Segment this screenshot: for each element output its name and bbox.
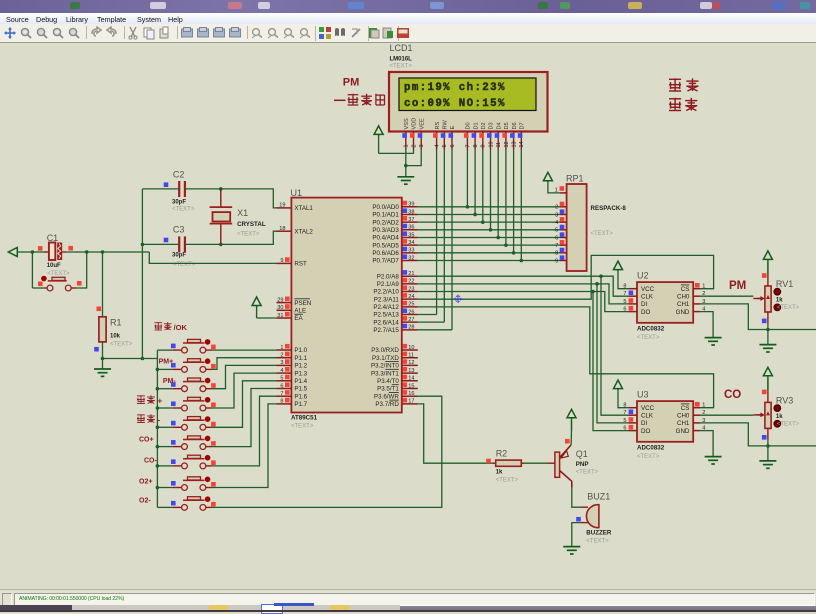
svg-text:-: -	[158, 416, 161, 425]
svg-text:P1.3: P1.3	[294, 370, 307, 377]
svg-text:CH1: CH1	[677, 301, 690, 308]
svg-text:X1: X1	[237, 208, 248, 218]
junction D2/P0.2	[481, 220, 485, 224]
svg-text:3: 3	[280, 360, 283, 366]
svg-text:6: 6	[280, 383, 283, 389]
power arrow for Q1 collector	[567, 409, 576, 445]
svg-text:Q1: Q1	[576, 449, 588, 459]
crystal X1 labels CRYSTAL	[237, 208, 266, 238]
svg-text:LCD1: LCD1	[390, 43, 413, 53]
svg-text:P3.6/WR: P3.6/WR	[374, 393, 399, 400]
RV3 labels 1k	[776, 395, 800, 427]
ground for LCD VSS	[397, 176, 414, 178]
svg-text:2: 2	[411, 144, 417, 147]
wire LCD D4 to P0.4 bus	[497, 150, 499, 238]
wire U2 GND to ground	[700, 312, 713, 338]
svg-text:RESPACK-8: RESPACK-8	[591, 205, 627, 212]
svg-text:<TEXT>: <TEXT>	[110, 342, 133, 348]
svg-text:37: 37	[408, 217, 414, 223]
wiper wire into RV1	[753, 296, 765, 301]
capacitor C2 plates	[179, 181, 185, 197]
wire P2.1 branch to U3 DI	[597, 284, 628, 423]
ground for RV1	[759, 344, 776, 346]
wire button6 to P1.5	[212, 389, 277, 447]
svg-text:RV3: RV3	[776, 395, 793, 405]
svg-text:/OK: /OK	[174, 323, 188, 332]
svg-text:P3.1/TXD: P3.1/TXD	[372, 355, 399, 362]
svg-text:P3.4/T0: P3.4/T0	[377, 378, 399, 385]
svg-text:U2: U2	[637, 271, 649, 281]
svg-text:9: 9	[481, 144, 487, 147]
svg-text:+: +	[158, 397, 163, 406]
wire LCD D7 to P0.7 bus	[520, 150, 522, 261]
wire xtal ground rail down	[141, 189, 143, 359]
wire P2.1 to U2 DI	[418, 284, 629, 304]
red label 碳氢-	[137, 414, 155, 422]
svg-text:13: 13	[512, 141, 518, 147]
svg-text:CO-: CO-	[144, 458, 158, 465]
crystal X1 symbol	[210, 189, 233, 245]
svg-text:R1: R1	[110, 318, 122, 328]
svg-text:U1: U1	[291, 188, 303, 198]
junction D1/P0.1	[473, 213, 477, 217]
svg-text:O2+: O2+	[139, 479, 152, 486]
wire C1 right to RST net	[66, 251, 149, 253]
svg-text:10uF: 10uF	[47, 263, 61, 269]
potentiometer RV3 1k	[765, 391, 771, 440]
ADC U3 ADC0832 body	[637, 401, 693, 442]
op-amp U1 labels AT89C51	[291, 188, 318, 430]
potentiometer RV1 1k	[765, 275, 771, 324]
push button CO+	[157, 436, 212, 450]
LCD display LCD1 labels	[390, 43, 413, 70]
svg-text:33: 33	[408, 248, 414, 254]
LCD pin stubs 1-14	[406, 132, 522, 150]
capacitor C2 labels 30pF	[172, 170, 195, 213]
svg-text:D2: D2	[481, 122, 487, 129]
svg-text:<TEXT>: <TEXT>	[591, 231, 614, 237]
svg-text:D5: D5	[504, 122, 510, 129]
state square BUZ1	[576, 517, 581, 522]
svg-text:P0.5/AD5: P0.5/AD5	[372, 242, 399, 249]
RV1 labels 1k	[776, 279, 800, 311]
svg-text:15: 15	[408, 383, 414, 389]
svg-text:CS: CS	[681, 286, 690, 293]
svg-text:<TEXT>: <TEXT>	[637, 335, 660, 341]
wire LCD RW to P2.6	[443, 150, 445, 323]
svg-text:RW: RW	[443, 120, 449, 130]
svg-text:CS: CS	[681, 405, 690, 412]
svg-text:P2.6/A14: P2.6/A14	[373, 319, 399, 326]
junction P2.0 branch	[599, 274, 603, 278]
svg-text:<TEXT>: <TEXT>	[237, 232, 260, 238]
origin marker	[454, 295, 462, 303]
U2 right pins CS CH0 CH1 GND	[676, 283, 706, 316]
RV3 adjust buttons	[774, 405, 781, 427]
state squares RV3	[762, 390, 767, 440]
svg-text:C3: C3	[173, 225, 185, 235]
junction VSS/VEE	[404, 164, 408, 168]
svg-text:<TEXT>: <TEXT>	[496, 478, 519, 484]
push button 设置/OK	[157, 339, 212, 353]
resistor R2 1k	[493, 460, 524, 466]
junction reset button right	[85, 250, 89, 254]
svg-text:3: 3	[555, 212, 558, 218]
ground under R1	[94, 359, 111, 377]
wire EA to power	[257, 317, 277, 319]
wire U3 CH1 to RV3 bottom rail	[700, 423, 816, 446]
junction D0/P0.0	[466, 205, 470, 209]
state squares button PM+	[171, 363, 216, 369]
state square C2 left	[164, 182, 169, 187]
U2 left pins VCC CLK DI DO	[623, 284, 654, 316]
wire R1 bottom to button rail	[103, 358, 158, 360]
state squares button O2-	[171, 501, 216, 507]
wire button4 to P1.3	[212, 373, 277, 408]
power arrow for EA	[252, 297, 261, 318]
svg-text:PM-: PM-	[163, 378, 177, 385]
red label 氧气	[669, 98, 697, 111]
svg-text:6: 6	[623, 307, 626, 313]
wire LCD VDD pin2 to power arrow	[379, 150, 414, 154]
state squares button O2+	[171, 481, 216, 487]
junction RV3 bottom	[766, 444, 770, 448]
svg-text:P2.3/A11: P2.3/A11	[374, 296, 400, 303]
svg-text:R2: R2	[496, 449, 508, 459]
svg-text:P1.6: P1.6	[294, 393, 307, 400]
svg-text:8: 8	[555, 251, 558, 257]
svg-text:11: 11	[408, 353, 414, 359]
svg-text:1: 1	[702, 403, 705, 409]
junction R1 bottom	[101, 357, 105, 361]
svg-text:30pF: 30pF	[172, 200, 186, 206]
resistor R2 labels 1k	[496, 449, 519, 484]
svg-text:<TEXT>: <TEXT>	[47, 271, 70, 277]
svg-text:C2: C2	[173, 170, 185, 180]
wire P2.5 to LCD RS	[418, 314, 437, 316]
svg-text:30pF: 30pF	[172, 253, 186, 259]
svg-text:21: 21	[408, 271, 414, 277]
svg-text:26: 26	[408, 309, 414, 315]
U1 right pin stubs, numbers and squares	[402, 201, 418, 405]
svg-text:P2.0/A8: P2.0/A8	[377, 273, 400, 280]
svg-text:P0.3/AD3: P0.3/AD3	[372, 227, 399, 234]
svg-text:8: 8	[473, 144, 479, 147]
state squares button 碳氢-	[171, 421, 216, 427]
wire P2.2 branch to U3 DO	[593, 292, 628, 431]
svg-text:24: 24	[408, 294, 414, 300]
svg-text:5: 5	[623, 299, 626, 305]
wire P2.3 to U2 CS over the top	[418, 255, 714, 299]
red label 一氧化碳	[334, 99, 346, 101]
svg-text:P1.1: P1.1	[294, 355, 307, 362]
svg-text:<TEXT>: <TEXT>	[637, 454, 660, 460]
svg-text:RP1: RP1	[566, 174, 584, 184]
svg-text:CH0: CH0	[677, 412, 690, 419]
wire reset button right up	[71, 252, 87, 288]
svg-text:6: 6	[623, 426, 626, 432]
state square R1 bottom	[94, 347, 99, 352]
svg-text:ALE: ALE	[294, 308, 306, 315]
svg-text:CO: CO	[724, 389, 741, 401]
svg-text:XTAL1: XTAL1	[294, 205, 313, 212]
svg-text:XTAL2: XTAL2	[294, 228, 313, 235]
junction C2/X1	[219, 187, 223, 191]
svg-text:VSS: VSS	[404, 118, 410, 129]
svg-text:VDD: VDD	[412, 118, 418, 130]
svg-text:P1.5: P1.5	[294, 386, 307, 393]
state square C1 left	[38, 246, 43, 251]
svg-text:<TEXT>: <TEXT>	[576, 470, 599, 476]
U1 right pin labels	[371, 204, 399, 408]
push button O2-	[157, 496, 212, 510]
svg-text:P2.2/A10: P2.2/A10	[373, 289, 399, 296]
capacitor C1 10uF	[44, 243, 66, 261]
junction D7/P0.7	[520, 259, 524, 263]
svg-text:DO: DO	[641, 428, 650, 435]
state squares button 设置/OK	[171, 344, 216, 350]
ADC U2 ADC0832 body	[637, 282, 693, 323]
svg-text:10k: 10k	[110, 334, 121, 340]
state square C1 right	[68, 246, 73, 251]
svg-text:P2.7/A15: P2.7/A15	[373, 327, 399, 334]
state squares button CO-	[171, 459, 216, 465]
wire RST into U1	[149, 252, 276, 263]
capacitor C1 labels 10uF	[47, 233, 70, 277]
svg-text:6: 6	[555, 235, 558, 241]
svg-text:32: 32	[408, 255, 414, 261]
svg-text:VCC: VCC	[641, 405, 655, 412]
RV1 adjust buttons	[774, 288, 781, 310]
push button 碳氢+	[157, 397, 212, 411]
svg-text:P1.2: P1.2	[294, 363, 307, 370]
svg-text:<TEXT>: <TEXT>	[172, 207, 195, 213]
svg-text:P3.2/INT0: P3.2/INT0	[371, 363, 399, 370]
wire LCD RS to P2.5	[436, 150, 438, 315]
svg-text:4: 4	[435, 144, 441, 147]
svg-text:<TEXT>: <TEXT>	[586, 539, 609, 545]
svg-text:AT89C51: AT89C51	[291, 415, 318, 422]
svg-text:ADC0832: ADC0832	[637, 326, 665, 333]
junction C3 gnd rail	[141, 243, 145, 247]
wire P2.7 to LCD E	[418, 329, 452, 331]
svg-text:CH1: CH1	[677, 420, 690, 427]
svg-text:1: 1	[555, 187, 558, 193]
svg-text:P1.0: P1.0	[294, 347, 307, 354]
junction P2.2 branch	[591, 290, 595, 294]
svg-text:25: 25	[408, 302, 414, 308]
junction gnd rail / button rail	[141, 357, 145, 361]
svg-text:10: 10	[488, 141, 494, 147]
wire U3 GND to ground	[700, 431, 713, 457]
svg-text:1: 1	[404, 144, 410, 147]
push button O2+	[157, 477, 212, 491]
wiper wire into RV3	[753, 413, 765, 418]
junction D3/P0.3	[489, 228, 493, 232]
svg-text:38: 38	[408, 209, 414, 215]
junction D4/P0.4	[496, 236, 500, 240]
svg-text:16: 16	[408, 391, 414, 397]
wire C3 right to XTAL2	[185, 231, 277, 244]
svg-text:E: E	[450, 126, 456, 130]
svg-text:<TEXT>: <TEXT>	[291, 424, 314, 430]
svg-text:PM+: PM+	[159, 359, 174, 366]
svg-text:8: 8	[280, 399, 283, 405]
svg-text:31: 31	[277, 313, 283, 319]
svg-text:P3.5/T1: P3.5/T1	[377, 386, 399, 393]
svg-text:PNP: PNP	[576, 461, 589, 468]
svg-text:CO+: CO+	[139, 437, 154, 444]
wire LCD VEE pin3 to VSS	[406, 150, 421, 166]
svg-text:P0.1/AD1: P0.1/AD1	[372, 212, 399, 219]
svg-text:DO: DO	[641, 309, 650, 316]
svg-text:10: 10	[408, 345, 414, 351]
wire LCD D1 to P0.1 bus	[474, 150, 476, 215]
buzzer BUZ1 labels BUZZER	[586, 492, 612, 545]
RP1 pins 2-9 stubs numbers squares	[555, 202, 567, 265]
svg-text:5: 5	[623, 418, 626, 424]
wire power arrow to C1	[17, 251, 44, 253]
wire button3 to P1.2	[212, 365, 277, 388]
svg-text:12: 12	[408, 360, 414, 366]
svg-text:2: 2	[280, 353, 283, 359]
svg-text:CH0: CH0	[677, 293, 690, 300]
svg-text:P3.0/RXD: P3.0/RXD	[371, 347, 399, 354]
wire C2 right to XTAL1	[185, 189, 277, 208]
svg-text:7: 7	[280, 391, 283, 397]
wire button2 to P1.1	[212, 358, 277, 370]
svg-text:7: 7	[623, 291, 626, 297]
U3 labels ADC0832	[637, 390, 665, 461]
capacitor C3 labels 30pF	[172, 225, 196, 269]
svg-text:D7: D7	[520, 122, 526, 129]
svg-text:7: 7	[465, 144, 471, 147]
svg-text:28: 28	[408, 325, 414, 331]
svg-text:5: 5	[442, 144, 448, 147]
svg-text:23: 23	[408, 286, 414, 292]
resistor pack RP1 RESPACK-8 body	[567, 184, 587, 271]
svg-text:11: 11	[496, 142, 502, 148]
U1 left pin labels	[294, 205, 313, 408]
state square C3 left	[164, 238, 169, 243]
red label 碳氢+	[137, 395, 155, 403]
svg-text:P0.6/AD6: P0.6/AD6	[372, 250, 399, 257]
svg-text:P0.0/AD0: P0.0/AD0	[372, 204, 399, 211]
wire RV3 bottom to ground	[767, 440, 769, 461]
U3 right pins CS CH0 CH1 GND	[676, 402, 706, 435]
LCD pin state squares	[402, 133, 522, 138]
wire P3.6 to button O2-	[212, 396, 442, 507]
svg-text:P0.2/AD2: P0.2/AD2	[372, 219, 399, 226]
resistor R1 10k	[99, 252, 106, 359]
svg-text:14: 14	[519, 141, 525, 147]
state squares button CO+	[171, 440, 216, 446]
wire button8 to P1.7	[212, 404, 277, 488]
junction R1 top	[101, 250, 105, 254]
power arrow for RV3	[763, 367, 772, 391]
wire U2 CH0 to RV1 wiper	[700, 295, 753, 297]
wire reset button left drop	[31, 252, 33, 288]
wire C2 left to gnd rail	[142, 188, 179, 190]
svg-text:CRYSTAL: CRYSTAL	[237, 221, 266, 228]
svg-text:1k: 1k	[776, 297, 783, 303]
wire button5 to P1.4	[212, 381, 277, 428]
svg-text:17: 17	[408, 399, 414, 405]
red label 设置/OK	[155, 322, 172, 330]
state squares reset button	[38, 281, 82, 286]
buzzer BUZ1	[581, 505, 599, 528]
svg-text:CLK: CLK	[641, 412, 654, 419]
wire LCD D2 to P0.2 bus	[482, 150, 484, 223]
svg-text:12: 12	[504, 141, 510, 147]
wire U2 CH1 to RV1 bottom rail	[700, 304, 816, 330]
svg-text:<TEXT>: <TEXT>	[390, 64, 413, 70]
wire P3.7 to R2	[418, 404, 493, 463]
svg-text:5: 5	[555, 228, 558, 234]
wire C3 left	[142, 243, 179, 245]
svg-text:RV1: RV1	[776, 279, 793, 289]
svg-text:P1.4: P1.4	[294, 378, 307, 385]
state squares button 碳氢+	[171, 402, 216, 408]
svg-text:<TEXT>: <TEXT>	[777, 305, 800, 311]
svg-text:D1: D1	[473, 122, 479, 129]
svg-text:18: 18	[279, 226, 285, 232]
wire LCD E to P2.7	[451, 150, 453, 330]
state square Q1 collector	[565, 439, 570, 444]
svg-text:CLK: CLK	[641, 293, 654, 300]
ground for U3	[705, 456, 722, 458]
svg-text:PM: PM	[343, 77, 360, 89]
svg-text:14: 14	[408, 376, 414, 382]
state squares button PM-	[171, 382, 216, 388]
svg-text:35: 35	[408, 232, 414, 238]
svg-text:P0.4/AD4: P0.4/AD4	[372, 235, 399, 242]
svg-text:pm:19% ch:23%: pm:19% ch:23%	[404, 82, 506, 94]
svg-text:4: 4	[280, 368, 283, 374]
wire LCD D0 to P0.0 bus	[466, 150, 468, 207]
svg-text:36: 36	[408, 225, 414, 231]
svg-text:PSEN: PSEN	[294, 300, 311, 307]
svg-text:VEE: VEE	[419, 118, 425, 129]
LCD pin name labels VSS VDD VEE RS RW E D0-D7	[404, 118, 526, 130]
junction RV1 bottom	[766, 328, 770, 332]
power arrow for U2 VCC	[614, 261, 629, 289]
button common rail	[156, 350, 158, 507]
svg-text:BUZZER: BUZZER	[586, 530, 612, 537]
LCD display LCD1 body LM016L	[389, 72, 548, 132]
push button PM-	[157, 378, 212, 392]
svg-text:DI: DI	[641, 301, 647, 308]
junction D6/P0.6	[512, 251, 516, 255]
svg-text:ADC0832: ADC0832	[637, 445, 665, 452]
svg-text:3: 3	[419, 144, 425, 147]
wire P2.2 to U2 DO	[418, 292, 629, 312]
RP1 labels RESPACK-8	[566, 174, 626, 238]
svg-text:VCC: VCC	[641, 286, 655, 293]
svg-text:1: 1	[702, 284, 705, 290]
ground for BUZ1	[563, 546, 580, 548]
svg-text:PM: PM	[729, 280, 746, 292]
ground for U2	[705, 337, 722, 339]
wire P2.0 branch to U3 CLK	[601, 276, 628, 415]
transistor Q1 labels PNP	[576, 449, 599, 476]
svg-text:co:09% NO:15%: co:09% NO:15%	[404, 98, 506, 110]
push button PM+	[157, 358, 212, 372]
wire P2.4 to U3 CS over the top	[418, 307, 714, 408]
svg-text:7: 7	[623, 410, 626, 416]
power arrow for RV1	[763, 251, 772, 275]
svg-text:13: 13	[408, 368, 414, 374]
